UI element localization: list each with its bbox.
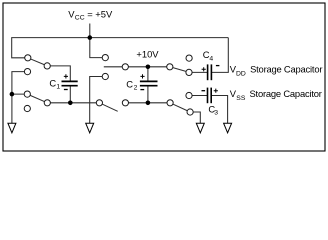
svg-text:3: 3 [214, 110, 218, 117]
switch S2 throw VCC [102, 55, 108, 61]
wire VCC to S2 top throw [90, 38, 106, 58]
label capacitor C1 [49, 77, 60, 90]
svg-text:Storage Capacitor: Storage Capacitor [250, 88, 322, 99]
wire bottom rail middle [125, 102, 170, 104]
label capacitor C4 [203, 49, 214, 62]
switch S6 contact left [96, 100, 102, 106]
wire S4 throw to C4 left plate [189, 71, 208, 73]
svg-text:CC: CC [75, 15, 85, 22]
label VDD Storage Capacitor [230, 63, 323, 77]
wire bottom rail left [47, 102, 99, 104]
switch S6 contact right [122, 100, 128, 106]
switch S2 throw GND [102, 73, 108, 79]
wire +10V rail [125, 66, 170, 68]
wire C3 right plate to ground [211, 96, 227, 124]
switch S4 throw open [186, 55, 192, 61]
wire S1 pole to C1 top [47, 66, 70, 82]
switch S1 throw GND [24, 69, 30, 75]
wire ground rail left [12, 72, 28, 124]
junction dot +10V node [146, 65, 151, 70]
label capacitor C2 [126, 78, 137, 91]
polarity marks C2 [140, 74, 144, 89]
net label +10V [136, 49, 159, 60]
svg-text:C: C [49, 77, 56, 88]
switch S5 throw VSS [186, 92, 192, 98]
junction dot ground rail left [10, 92, 15, 97]
switch S1 arm [28, 58, 47, 66]
switch S3 arm [27, 94, 47, 103]
capacitor C1 plates [62, 81, 78, 85]
net label VCC = +5V [68, 9, 113, 22]
switch S6 open arm [99, 103, 117, 112]
ground symbol left [8, 123, 16, 133]
junction dot VCC node [88, 35, 93, 40]
switch S3 throw GND [24, 91, 30, 97]
ground symbol middle [86, 123, 94, 133]
polarity marks C1 [64, 74, 68, 89]
switch S1 throw VCC [25, 55, 31, 61]
wire VSS node to C3 left plate [189, 95, 208, 97]
svg-text:+10V: +10V [136, 49, 159, 60]
label capacitor C3 [208, 103, 218, 116]
wire top rail to C4 right plate [212, 38, 228, 73]
wire ground rail middle [90, 77, 106, 124]
capacitor C4 plates [208, 64, 212, 80]
junction dot C1 bottom node [68, 101, 73, 106]
switch S4 arm [170, 67, 189, 73]
switch S5 arm [170, 103, 190, 112]
svg-text:2: 2 [134, 85, 138, 92]
svg-text:SS: SS [236, 95, 246, 102]
switch S2 pole [122, 64, 128, 70]
svg-text:Storage Capacitor: Storage Capacitor [250, 63, 322, 74]
svg-text:= +5V: = +5V [87, 9, 113, 20]
wire C1 bottom lead [69, 86, 71, 103]
switch S4 throw C4 [186, 69, 192, 75]
ground symbol S5 throw [196, 123, 204, 133]
switch S3 pole [44, 100, 50, 106]
wire VCC lead [89, 24, 91, 38]
switch S4 pole [167, 64, 173, 70]
junction dot C2 bottom node [146, 101, 151, 106]
capacitor C2 plates [140, 81, 158, 85]
ground symbol C3 [224, 123, 232, 133]
capacitor C3 plates [208, 88, 212, 104]
svg-text:C: C [126, 78, 133, 89]
switch S1 pole [44, 63, 50, 69]
wire VCC top rail [12, 38, 229, 58]
switch S3 throw open [24, 105, 30, 111]
svg-text:1: 1 [56, 84, 60, 91]
label VSS Storage Capacitor [230, 88, 322, 102]
wire C2 top lead [147, 67, 149, 82]
switch S5 pole [167, 100, 173, 106]
wire S5 bottom throw to ground [190, 112, 200, 123]
switch S5 throw GND [187, 109, 193, 115]
switch S2 arm [104, 66, 126, 68]
polarity marks C3 [202, 89, 218, 93]
svg-text:4: 4 [209, 55, 213, 62]
wire C2 bottom lead [147, 86, 149, 103]
polarity marks C4 [202, 66, 220, 72]
svg-text:DD: DD [236, 71, 246, 78]
